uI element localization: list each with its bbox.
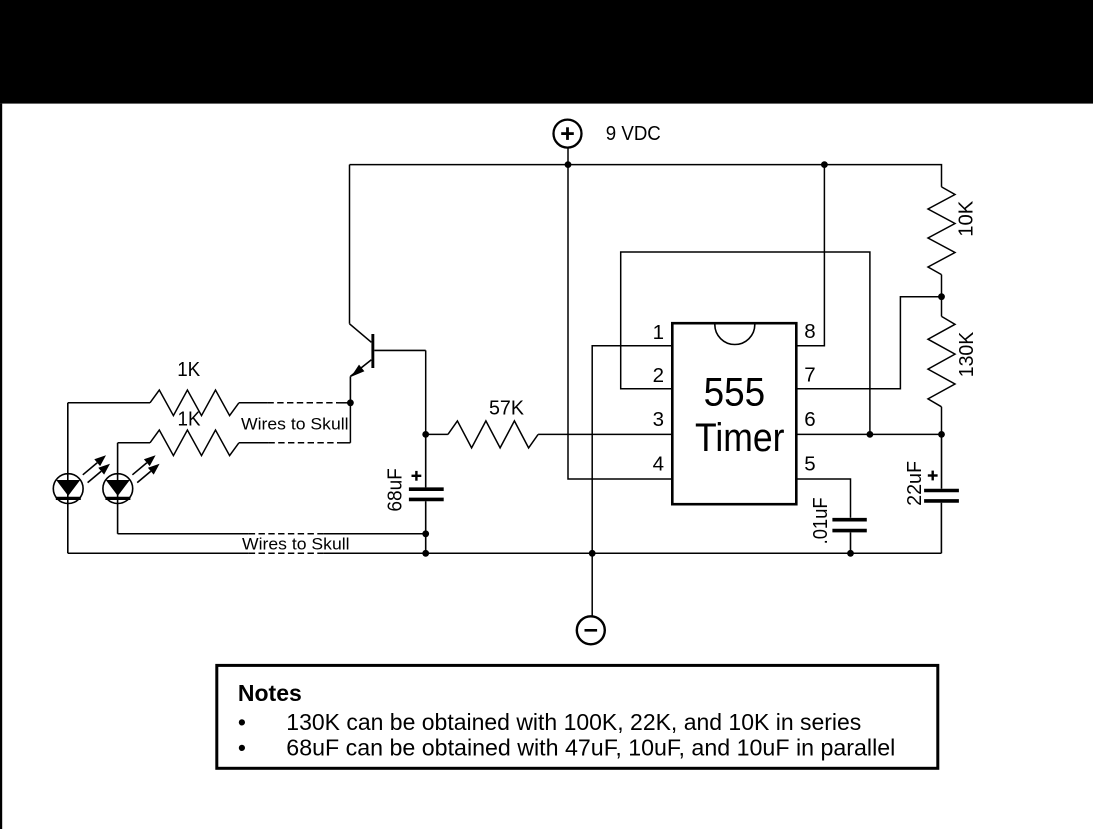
svg-text:1K: 1K bbox=[178, 408, 201, 431]
wire pin 1 to ground rail bbox=[592, 346, 672, 617]
svg-text:22uF: 22uF bbox=[903, 461, 926, 506]
notes box bbox=[217, 665, 938, 768]
node emitter junction bbox=[347, 399, 354, 406]
node bus at 68uF bbox=[422, 550, 429, 557]
wire collector down to node bbox=[425, 350, 427, 434]
svg-text:4: 4 bbox=[653, 452, 664, 475]
svg-text:Notes: Notes bbox=[238, 680, 302, 706]
wire pin 5 down bbox=[796, 479, 850, 518]
svg-text:9 VDC: 9 VDC bbox=[606, 122, 661, 145]
resistor R4 10K bbox=[928, 187, 955, 275]
svg-text:3: 3 bbox=[653, 408, 664, 431]
resistor R2 1K bbox=[118, 442, 150, 444]
wire pin 8 to top rail bbox=[796, 165, 824, 346]
wire top rail bbox=[350, 165, 942, 187]
ground terminal - bbox=[577, 616, 605, 644]
resistor R3 57K bbox=[426, 433, 448, 435]
node bus at ground stem bbox=[589, 550, 596, 557]
svg-text:555: 555 bbox=[704, 370, 766, 414]
junction node Vcc bbox=[565, 161, 572, 168]
svg-text:57K: 57K bbox=[489, 397, 524, 420]
wire pin 7 to divider bbox=[796, 297, 941, 389]
wire Vcc vertical to pin 4 bbox=[568, 148, 672, 479]
node collector/57K/68uF bbox=[422, 431, 429, 438]
svg-text:68uF can be obtained with 47uF: 68uF can be obtained with 47uF, 10uF, an… bbox=[286, 735, 895, 761]
svg-text:10K: 10K bbox=[954, 200, 977, 236]
op-amp/IC U1 555 timer box bbox=[672, 323, 796, 504]
svg-text:1: 1 bbox=[653, 321, 664, 344]
wire ground bus (dashed mid) bbox=[68, 552, 249, 554]
svg-text:130K can be obtained with 100K: 130K can be obtained with 100K, 22K, and… bbox=[286, 709, 861, 735]
wire to skull upper (R2, partly dashed) bbox=[239, 442, 269, 444]
svg-text:Wires to Skull: Wires to Skull bbox=[241, 415, 349, 434]
resistor R5 130K bbox=[941, 297, 943, 317]
wire to skull lower (dashed mid) bbox=[118, 533, 249, 535]
svg-text:1K: 1K bbox=[177, 358, 200, 381]
svg-text:7: 7 bbox=[804, 364, 815, 387]
resistor R1 1K bbox=[68, 402, 150, 404]
svg-text:68uF: 68uF bbox=[384, 468, 407, 512]
svg-text:2: 2 bbox=[653, 364, 664, 387]
node pin6/pin2 link bbox=[867, 431, 874, 438]
transistor Q1 bbox=[350, 324, 372, 343]
wire pin 6 row bbox=[796, 433, 941, 435]
capacitor C2 22uF bbox=[941, 434, 943, 488]
svg-text:5: 5 bbox=[804, 452, 815, 475]
LED D1 bbox=[67, 403, 69, 554]
node bus at .01uF bbox=[847, 550, 854, 557]
node skull wire / 68uF bbox=[422, 530, 429, 537]
wire to skull upper (R1, partly dashed) bbox=[239, 402, 268, 404]
top black band bbox=[0, 0, 1093, 104]
svg-text:8: 8 bbox=[804, 320, 815, 343]
svg-text:130K: 130K bbox=[955, 331, 978, 377]
LED D1 light arrows bbox=[83, 463, 97, 475]
capacitor C1 68uF bbox=[425, 434, 427, 487]
svg-text:Wires to Skull: Wires to Skull bbox=[242, 535, 350, 554]
svg-text:Timer: Timer bbox=[695, 416, 785, 460]
capacitor C3 .01uF bbox=[832, 518, 866, 522]
svg-text:.01uF: .01uF bbox=[809, 497, 832, 544]
left page edge line bbox=[0, 104, 2, 829]
node pin6/divider bbox=[938, 431, 945, 438]
wire collector branch from top rail bbox=[349, 165, 351, 324]
LED D2 light arrows bbox=[132, 463, 146, 475]
wire pin 2 feedback link bbox=[621, 252, 870, 434]
power terminal + (9V) bbox=[554, 120, 582, 148]
svg-text:•: • bbox=[238, 735, 246, 761]
svg-text:•: • bbox=[238, 709, 246, 735]
junction node pin8/top bbox=[821, 161, 828, 168]
node divider mid bbox=[938, 293, 945, 300]
svg-text:6: 6 bbox=[804, 408, 815, 431]
LED D2 bbox=[117, 443, 119, 534]
